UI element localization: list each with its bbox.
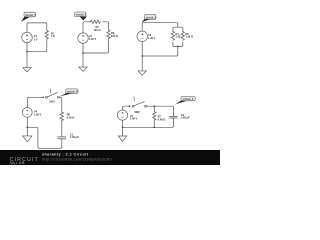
flag circuit_4 bbox=[60, 89, 78, 97]
resistor R1 bbox=[45, 31, 48, 40]
voltage source V1 bbox=[22, 32, 33, 43]
voltage source V3 bbox=[137, 31, 148, 42]
ground G1 bbox=[23, 68, 32, 72]
wire right-bottom C2 bbox=[83, 38, 109, 53]
wire ground stub C2 bbox=[82, 53, 84, 67]
node switch left C4 bbox=[42, 97, 44, 99]
node junction C2 bbox=[82, 52, 84, 54]
wire R7 branch bottom C5 bbox=[153, 120, 155, 127]
svg-text:circuit_5: circuit_5 bbox=[183, 97, 194, 101]
wire switch to corner C4 bbox=[59, 97, 61, 112]
resistor R3 bbox=[107, 30, 110, 39]
wire resistor to capacitor C4 bbox=[61, 120, 63, 136]
wire source bottom C4 bbox=[26, 117, 28, 127]
svg-text:1.48 V: 1.48 V bbox=[130, 117, 138, 121]
wire capacitor down C4 bbox=[27, 127, 62, 148]
svg-text:1.48: 1.48 bbox=[175, 35, 181, 39]
wire source bottom C2 bbox=[82, 43, 84, 53]
node R7 top C5 bbox=[153, 105, 155, 107]
svg-text:1.48 µF: 1.48 µF bbox=[70, 135, 79, 139]
svg-text:6.48 Ω: 6.48 Ω bbox=[158, 117, 166, 121]
wire ground stub C5 bbox=[122, 127, 124, 136]
svg-text:sharahty : 2.2 Circuit: sharahty : 2.2 Circuit bbox=[42, 152, 89, 156]
node junction C4 bbox=[26, 126, 28, 128]
svg-text:5 V: 5 V bbox=[34, 38, 38, 42]
svg-text:SW2: SW2 bbox=[134, 110, 140, 114]
wire ground stub C3 bbox=[141, 56, 143, 71]
wire parallel top bar C3 bbox=[173, 27, 183, 31]
svg-text:6.48 Ω: 6.48 Ω bbox=[67, 116, 75, 120]
wire right-bottom C1 bbox=[27, 39, 47, 52]
svg-text:100 Ω: 100 Ω bbox=[94, 28, 101, 32]
wire top-left C5 bbox=[123, 106, 130, 110]
svg-text:1.48 V: 1.48 V bbox=[34, 113, 42, 117]
wire center stub C3 bbox=[142, 46, 178, 56]
svg-text:circuit_4: circuit_4 bbox=[67, 89, 78, 93]
wire top loop C1 bbox=[27, 23, 47, 32]
svg-text:1.48 V: 1.48 V bbox=[89, 37, 97, 41]
flag circuit_3 bbox=[141, 15, 156, 23]
wire top-left C2 bbox=[83, 22, 90, 33]
flag Circuit_1 bbox=[21, 12, 36, 22]
wire top C3 bbox=[142, 23, 178, 32]
wire ground stub C4 bbox=[26, 127, 28, 136]
ground G3 bbox=[138, 71, 147, 75]
switch SW1 bbox=[45, 89, 59, 99]
svg-text:1 Ω: 1 Ω bbox=[51, 34, 55, 38]
wire source bottom C5 bbox=[122, 120, 124, 127]
svg-text:circuit_2: circuit_2 bbox=[76, 13, 87, 17]
node junction C5 bbox=[122, 126, 124, 128]
ground G4 bbox=[23, 136, 33, 142]
node junction C3 bbox=[141, 55, 143, 57]
node parallel junction C3 bbox=[177, 46, 179, 48]
capacitor C2 bbox=[170, 117, 178, 119]
node R7 bottom C5 bbox=[153, 126, 155, 128]
flag circuit_2 bbox=[75, 12, 87, 20]
svg-text:LAB: LAB bbox=[16, 161, 25, 165]
svg-text:SW1: SW1 bbox=[49, 100, 55, 104]
voltage source V2 bbox=[78, 33, 89, 44]
flag circuit_5 bbox=[175, 96, 195, 104]
svg-text:1.48 V: 1.48 V bbox=[148, 36, 156, 40]
svg-text:100 Ω: 100 Ω bbox=[111, 34, 118, 38]
switch SW2 bbox=[132, 97, 146, 108]
wire R7 branch top C5 bbox=[153, 106, 155, 111]
svg-text:1.48 µF: 1.48 µF bbox=[181, 116, 190, 120]
resistor R7 bbox=[153, 112, 156, 120]
wire top-right C2 bbox=[102, 22, 108, 30]
voltage source V4 bbox=[22, 107, 32, 117]
wire ground stub C1 bbox=[26, 52, 28, 68]
resistor R2 bbox=[90, 20, 100, 23]
resistor R4 bbox=[171, 31, 174, 40]
wire source bottom C1 bbox=[26, 43, 28, 52]
svg-text:http://circuitlab.com/c/3mph2e: http://circuitlab.com/c/3mph2e3c3d/ bbox=[42, 158, 112, 162]
resistor R6 bbox=[60, 112, 63, 120]
wire switch to flag corner C5 bbox=[147, 106, 174, 116]
resistor R5 bbox=[181, 31, 184, 40]
node switch left C5 bbox=[129, 105, 131, 107]
ground G5 bbox=[118, 136, 127, 142]
wire capacitor bottom C5 bbox=[123, 118, 174, 127]
svg-text:circuit_1: circuit_1 bbox=[25, 13, 36, 17]
svg-text:1.48 Ω: 1.48 Ω bbox=[185, 35, 193, 39]
voltage source V5 bbox=[117, 110, 127, 120]
wire top-left C4 bbox=[27, 97, 43, 107]
svg-text:circuit_3: circuit_3 bbox=[146, 15, 157, 19]
svg-text:V4: V4 bbox=[34, 109, 38, 113]
capacitor C1 bbox=[57, 137, 66, 139]
wire parallel bottom bar C3 bbox=[173, 42, 183, 46]
node junction C1 bbox=[26, 51, 28, 53]
wire source bottom C3 bbox=[141, 42, 143, 56]
ground G2 bbox=[79, 67, 88, 71]
